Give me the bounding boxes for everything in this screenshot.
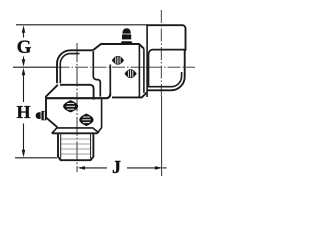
port axis extension line [161, 96, 163, 176]
horizontal centerline [57, 66, 196, 68]
lower housing top face edge [46, 94, 111, 99]
svg-text:G: G [17, 37, 32, 58]
stud thread texture [61, 139, 90, 154]
stud outline [58, 134, 93, 160]
upper housing bottom edge [112, 93, 147, 98]
left grease nipple cap [36, 112, 41, 119]
top grease nipple cap [123, 29, 130, 34]
arm bottom edge [60, 85, 94, 100]
stud vertical centerline [76, 43, 78, 172]
screw S4 [80, 114, 93, 125]
top grease nipple mid band [122, 34, 131, 39]
screw S3 [64, 101, 78, 112]
collar bottom [52, 132, 98, 134]
arm cap outer [57, 50, 93, 83]
upper housing top edge [93, 44, 144, 50]
upper housing right face [138, 45, 140, 98]
top grease nipple hex [121, 41, 133, 44]
collar line [143, 49, 145, 93]
screw S2 [125, 70, 136, 78]
G up arrow [22, 25, 26, 37]
lower housing right edge [97, 99, 101, 133]
top extension line [16, 24, 148, 26]
port vertical centerline [160, 10, 162, 96]
left grease nipple hex [41, 111, 46, 120]
H dim line lower arrow [22, 124, 26, 158]
svg-text:H: H [16, 102, 30, 122]
H dim line upper arrow [22, 68, 26, 102]
port outer left edge [146, 25, 148, 97]
J dim line right segment [127, 166, 167, 170]
stud thread root left [60, 134, 62, 158]
housing left face step [93, 51, 100, 96]
housing inner face edge [109, 65, 111, 95]
stud thread root right [90, 134, 92, 158]
port outline [147, 25, 185, 90]
lower housing bottom edge [57, 128, 99, 133]
collar left slant [52, 128, 57, 134]
port inner shoulder [149, 50, 185, 87]
bottom extension line [15, 157, 57, 159]
centerline left extension [13, 66, 57, 68]
screw S1 [112, 56, 123, 64]
G down arrow [22, 57, 26, 67]
svg-text:J: J [112, 157, 121, 177]
arm cap inner [60, 54, 79, 84]
port inner bottom [147, 72, 182, 87]
J dim line left segment [78, 166, 108, 170]
lower housing left profile [46, 85, 58, 127]
